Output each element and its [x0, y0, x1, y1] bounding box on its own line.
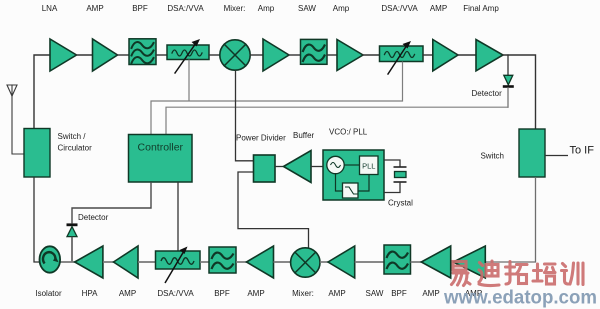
VCO/PLL module box — [323, 150, 384, 200]
svg-text:SAW: SAW — [366, 289, 384, 298]
svg-text:DSA:/VVA: DSA:/VVA — [381, 4, 418, 13]
bus line1 controller-DSA — [151, 62, 403, 135]
wire switch to bottom chain — [485, 177, 535, 262]
attenuator DSA:/VVA top2 — [380, 41, 424, 74]
svg-text:AMP: AMP — [86, 4, 103, 13]
wire — [274, 261, 291, 263]
wire — [138, 261, 156, 263]
svg-text:VCO:/ PLL: VCO:/ PLL — [329, 128, 368, 137]
svg-text:Crystal: Crystal — [388, 199, 413, 208]
svg-text:SAW: SAW — [298, 4, 316, 13]
wire buffer-VCO — [311, 166, 323, 168]
TOPCHAIN — [7, 39, 536, 154]
wire — [103, 261, 114, 263]
power divider box — [254, 155, 276, 182]
wire divider-VCO — [336, 174, 343, 191]
switch box right — [519, 129, 545, 177]
svg-text:HPA: HPA — [82, 289, 99, 298]
svg-text:Amp: Amp — [258, 4, 275, 13]
amplifier Amp2 — [337, 40, 363, 71]
attenuator DSA:/VVA bottom — [156, 247, 201, 284]
svg-text:Mixer:: Mixer: — [224, 4, 246, 13]
svg-text:Final Amp: Final Amp — [463, 4, 499, 13]
wire divider-buffer — [275, 166, 284, 168]
wire final amp to switch — [503, 55, 536, 129]
svg-text:AMP: AMP — [247, 289, 264, 298]
svg-text:AMP: AMP — [430, 4, 447, 13]
amplifier AMP b5 — [453, 246, 485, 278]
VCO oscillator circle — [327, 156, 344, 173]
BOTTOMCHAIN — [40, 245, 486, 283]
svg-text:DSA:/VVA: DSA:/VVA — [167, 4, 204, 13]
wire LO to top mixer — [236, 70, 254, 161]
wire — [236, 261, 247, 263]
wire — [423, 54, 433, 56]
wire PLL-divider — [358, 175, 369, 192]
svg-text:BPF: BPF — [132, 4, 148, 13]
mixer top — [220, 40, 250, 70]
amplifier AMP — [93, 39, 118, 71]
amplifier LNA — [50, 39, 77, 71]
watermark char pei — [533, 264, 555, 284]
amplifier AMP b2 — [247, 246, 274, 278]
filter BPF — [129, 39, 156, 65]
watermark char di — [479, 261, 499, 286]
wire antenna to circulator — [12, 96, 24, 154]
wire — [156, 54, 167, 56]
wire — [250, 54, 263, 56]
svg-text:AMP: AMP — [119, 289, 136, 298]
buffer amplifier — [284, 151, 312, 183]
svg-text:LNA: LNA — [42, 4, 58, 13]
wire top-left corner to LNA — [34, 55, 50, 129]
WATERMARK — [443, 261, 597, 309]
wire circulator to bottom chain — [34, 177, 40, 262]
amplifier AMP b4 — [421, 246, 450, 278]
wire bottom chain — [40, 261, 75, 263]
svg-text:PLL: PLL — [362, 162, 375, 171]
svg-text:Circulator: Circulator — [58, 144, 93, 153]
wire — [355, 261, 384, 263]
bus line2 controller-detector — [166, 88, 508, 135]
svg-text:BPF: BPF — [214, 289, 230, 298]
filter SAW — [301, 39, 328, 64]
wire LO to bottom mixer — [238, 172, 309, 248]
amplifier FinalAmp — [476, 40, 503, 71]
svg-text:Switch /: Switch / — [58, 132, 87, 141]
wire controller to detector2 — [72, 182, 151, 223]
PLL box — [360, 156, 379, 175]
wire — [209, 54, 220, 56]
wire — [200, 261, 209, 263]
svg-text:Switch: Switch — [480, 152, 504, 161]
svg-text:Mixer:: Mixer: — [292, 289, 314, 298]
watermark char yi — [452, 262, 471, 286]
mixer bottom — [291, 248, 320, 277]
wire to IF — [545, 155, 568, 157]
wire — [458, 54, 476, 56]
wire — [320, 261, 328, 263]
watermark char tuo — [506, 262, 528, 285]
svg-text:AMP: AMP — [328, 289, 345, 298]
wire VCO-PLL — [344, 164, 359, 166]
svg-text:www.edatop.com: www.edatop.com — [443, 287, 597, 309]
detector D1 top right — [503, 55, 514, 107]
svg-text:Detector: Detector — [78, 213, 109, 222]
antenna — [7, 85, 17, 96]
svg-text:DSA:/VVA: DSA:/VVA — [157, 289, 194, 298]
amplifier HPA — [75, 246, 103, 278]
svg-text:Isolator: Isolator — [35, 289, 62, 298]
filter SAW BPF bottom — [384, 245, 411, 274]
wire — [363, 54, 380, 56]
svg-text:AMP: AMP — [422, 289, 439, 298]
divider box — [343, 183, 359, 198]
svg-text:Detector: Detector — [472, 89, 503, 98]
controller U1 — [129, 135, 193, 183]
detector D2 bottom left — [67, 223, 78, 262]
filter BPF bottom — [209, 247, 236, 273]
wire — [327, 54, 337, 56]
svg-text:To IF: To IF — [570, 145, 595, 157]
amplifier AMP3 — [433, 40, 458, 71]
wire — [118, 54, 130, 56]
svg-text:Amp: Amp — [333, 4, 350, 13]
MIDDLE — [24, 60, 568, 263]
svg-text:BPF: BPF — [391, 289, 407, 298]
amplifier Amp — [263, 39, 289, 71]
amplifier AMP b3 — [328, 246, 355, 278]
svg-text:Power Divider: Power Divider — [236, 134, 286, 143]
attenuator DSA:/VVA top1 — [167, 39, 209, 73]
amplifier AMP b1 — [114, 246, 139, 278]
wire — [289, 54, 301, 56]
switch/circulator box — [24, 129, 50, 178]
watermark char xun — [562, 263, 584, 285]
wire DSA1 control stub — [188, 60, 190, 102]
isolator — [40, 246, 61, 272]
svg-text:Buffer: Buffer — [293, 131, 315, 140]
svg-text:Controller: Controller — [138, 142, 184, 154]
wire — [411, 261, 422, 263]
wire — [77, 54, 93, 56]
crystal X1 — [384, 160, 407, 193]
wire controller to bottom DSA — [177, 182, 179, 251]
